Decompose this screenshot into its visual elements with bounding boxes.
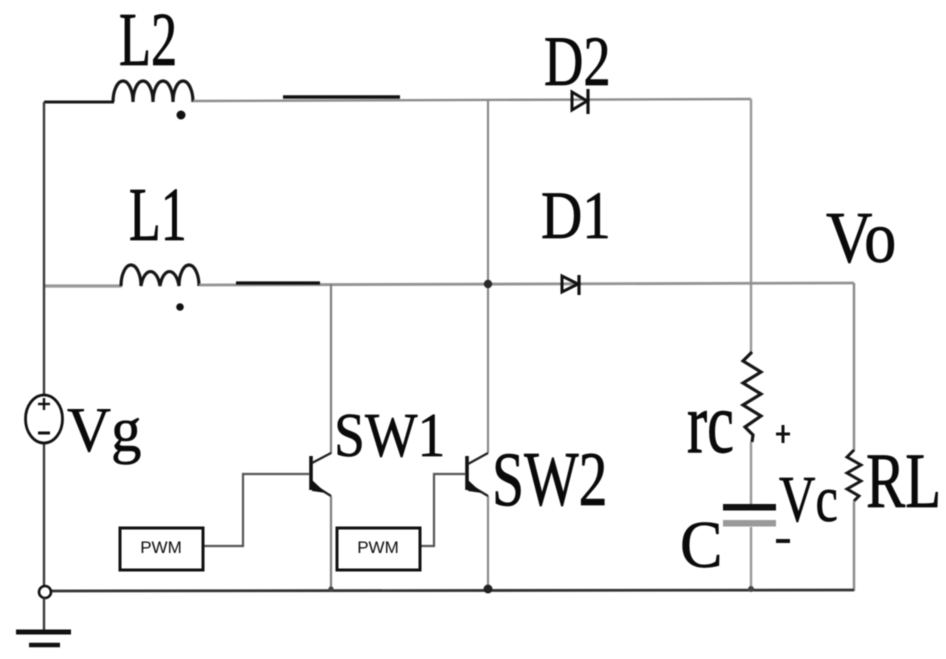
wire rc branch vertical upper — [750, 99, 752, 352]
svg-text:Vo: Vo — [826, 197, 896, 277]
wire SW1 base path — [203, 474, 309, 546]
wire top-left segment — [44, 101, 114, 104]
junction nub SW1 bottom — [328, 586, 333, 591]
inductor L1 — [121, 265, 199, 286]
pwm box 1 — [120, 528, 203, 570]
junction dot bottom rc — [748, 586, 754, 592]
diode D2 — [572, 92, 587, 110]
wire SW1 collector vertical — [330, 284, 332, 454]
svg-text:PWM: PWM — [357, 538, 399, 557]
svg-text:PWM: PWM — [140, 538, 182, 557]
wire thick overlay L1 row — [236, 281, 320, 284]
wire middle vertical lower — [487, 496, 489, 591]
phase dot L1 — [176, 303, 184, 311]
wire top horizontal — [193, 99, 751, 101]
svg-text:C: C — [680, 509, 723, 583]
resistor rc — [743, 352, 761, 442]
svg-text:Vc: Vc — [779, 463, 838, 536]
wire thick overlay top — [283, 95, 400, 98]
pwm box 2 — [337, 528, 420, 570]
junction node on Vo wire — [484, 280, 492, 288]
svg-text:D1: D1 — [541, 178, 611, 254]
wire Vo horizontal — [199, 283, 854, 285]
svg-text:L2: L2 — [119, 0, 177, 82]
diode D1 — [562, 276, 578, 292]
svg-text:RL: RL — [866, 437, 941, 524]
inductor L2 — [113, 81, 193, 102]
transistor SW2 — [467, 453, 488, 496]
wire RL branch upper — [853, 283, 855, 451]
wire bottom horizontal — [51, 590, 854, 591]
svg-text:SW2: SW2 — [492, 436, 607, 522]
wire L1 row left segment — [44, 284, 122, 287]
wire left vertical — [43, 102, 45, 586]
plus sign — [776, 425, 790, 443]
svg-text:L1: L1 — [129, 173, 187, 257]
svg-text:D2: D2 — [544, 22, 611, 100]
node open circle — [39, 586, 51, 598]
svg-text:rc: rc — [687, 377, 734, 472]
wire circle to ground — [43, 598, 45, 632]
wire RL branch lower — [853, 501, 855, 591]
svg-text:SW1: SW1 — [334, 401, 445, 469]
wire middle vertical upper — [487, 100, 489, 453]
ground — [16, 632, 71, 645]
wire SW2 base path — [420, 474, 465, 546]
svg-text:Vg: Vg — [67, 396, 141, 465]
resistor RL — [847, 450, 861, 501]
phase dot L2 — [177, 111, 186, 120]
wire SW1 emitter vertical — [330, 496, 332, 591]
capacitor C — [723, 504, 776, 511]
wire rc to capacitor — [750, 442, 752, 505]
wire capacitor to bottom — [750, 527, 752, 591]
junction dot bottom middle — [484, 585, 493, 594]
minus sign — [776, 539, 790, 543]
source Vg — [26, 395, 63, 443]
transistor SW1 — [311, 453, 331, 496]
